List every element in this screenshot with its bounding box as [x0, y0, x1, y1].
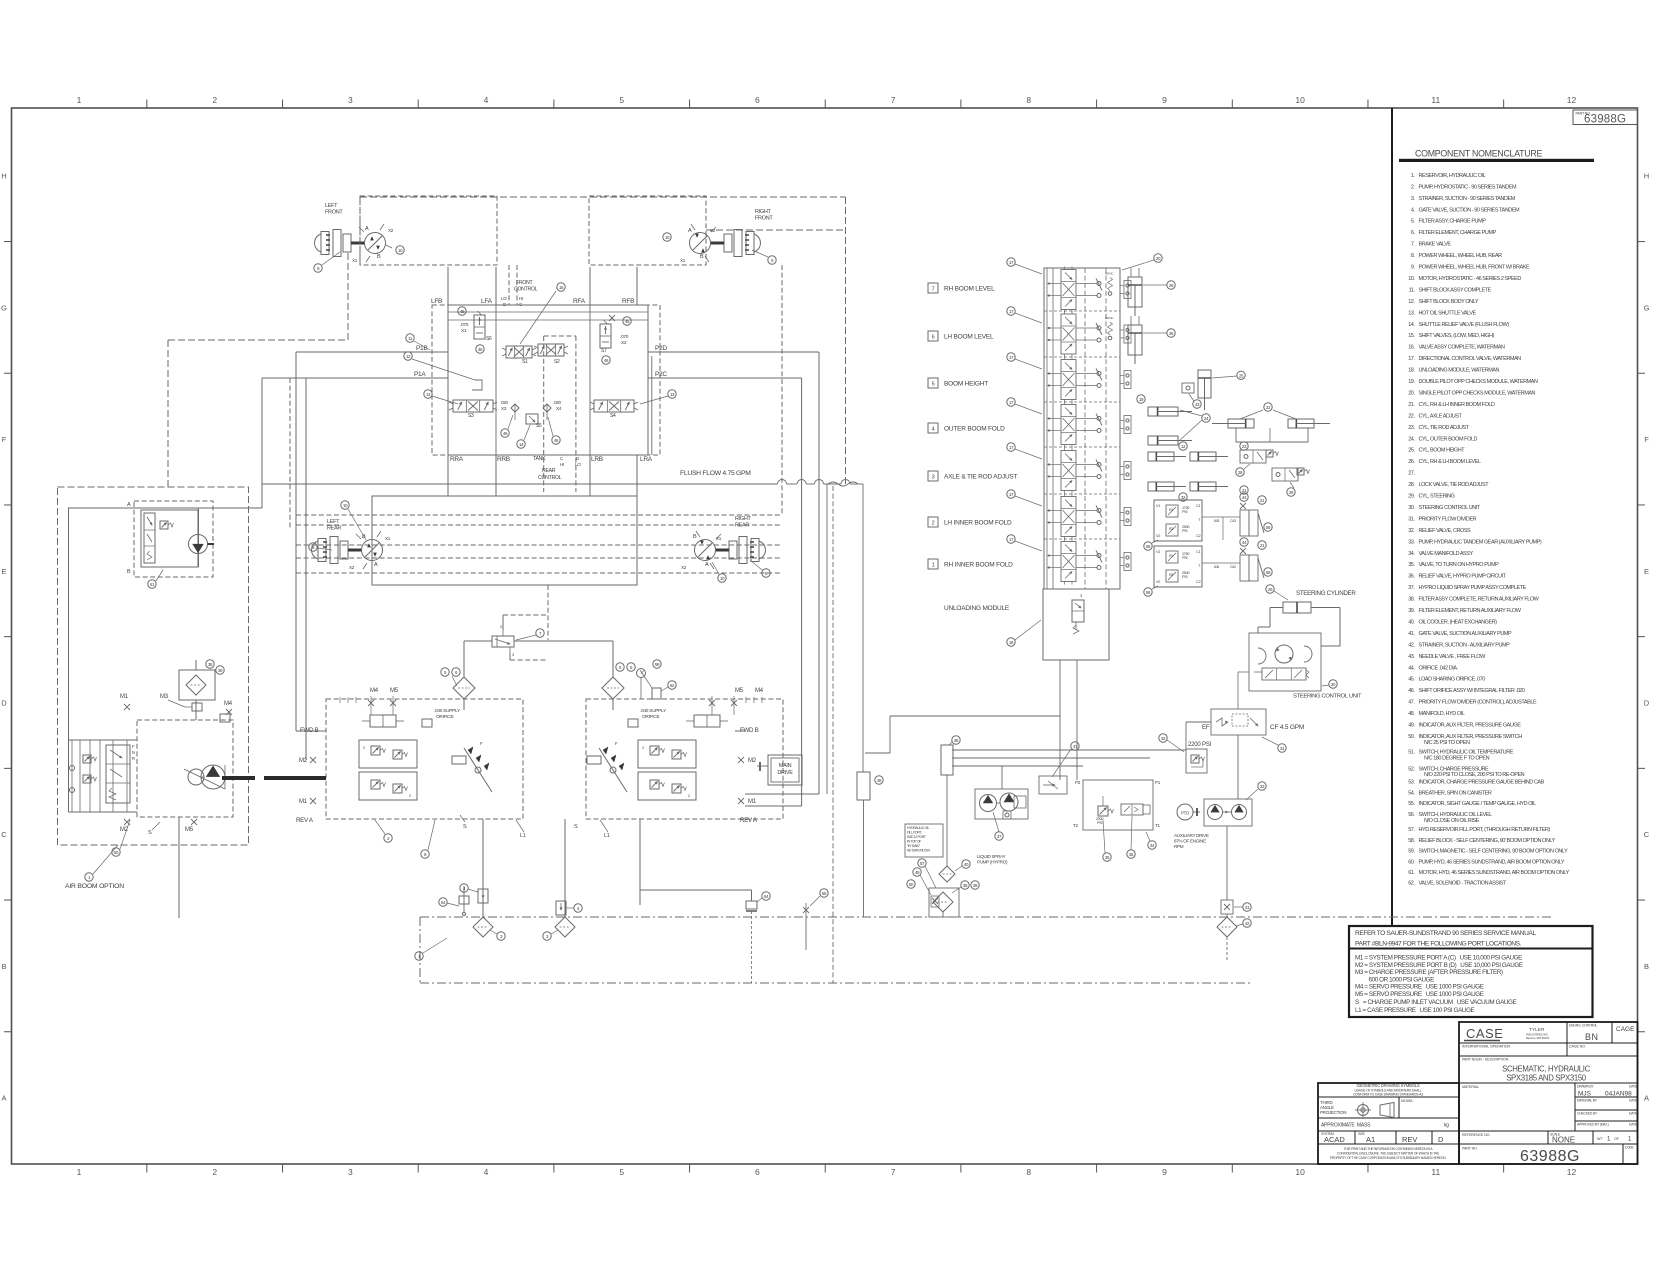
svg-text:N/C 180 DEGREE F TO OPEN: N/C 180 DEGREE F TO OPEN — [1424, 756, 1490, 762]
svg-text:APPROVED BY (MAJ.): APPROVED BY (MAJ.) — [1577, 1123, 1609, 1127]
svg-text:N/C 25 PSI TO OPEN: N/C 25 PSI TO OPEN — [1424, 740, 1470, 746]
svg-text:L1: L1 — [604, 833, 610, 839]
svg-text:2: 2 — [409, 794, 411, 798]
svg-text:1: 1 — [77, 1167, 82, 1177]
label CF 4.5 GPM — [1270, 724, 1304, 731]
wire LRA feed — [651, 356, 653, 455]
box steering control unit — [1249, 633, 1321, 691]
svg-text:PSI: PSI — [1182, 575, 1187, 579]
svg-text:X2: X2 — [621, 340, 627, 346]
valve brake (7) — [492, 624, 515, 657]
svg-text:WT: WT — [1597, 1137, 1603, 1141]
svg-text:HYD RESERVOIR FILL PORT, (THRO: HYD RESERVOIR FILL PORT, (THROUGH RETURN… — [1419, 827, 1551, 833]
callout 45 S6 — [458, 307, 466, 315]
svg-text:3: 3 — [348, 1167, 353, 1177]
svg-text:SHIFT BLOCK BODY ONLY: SHIFT BLOCK BODY ONLY — [1419, 299, 1479, 305]
svg-text:CAGE NO.: CAGE NO. — [1569, 1045, 1586, 1049]
svg-text:R2: R2 — [1169, 573, 1173, 577]
cylinder tie rod lower left — [1148, 482, 1186, 491]
svg-text:X1: X1 — [461, 328, 467, 334]
svg-text:48.: 48. — [1408, 711, 1415, 717]
callout 3 left strainer — [490, 930, 505, 940]
svg-text:POWER WHEEL, WHEEL HUB, REAR: POWER WHEEL, WHEEL HUB, REAR — [1419, 253, 1503, 259]
valve needle 41 — [1221, 900, 1251, 914]
svg-text:VALVE, SOLENOID - TRACTION ASS: VALVE, SOLENOID - TRACTION ASSIST — [1419, 880, 1507, 886]
svg-text:ORIFICE .042 DIA.: ORIFICE .042 DIA. — [1419, 665, 1459, 671]
svg-text:CYL, RH & LH INNER BOOM FOLD: CYL, RH & LH INNER BOOM FOLD — [1419, 402, 1496, 408]
orifice X3 — [500, 400, 519, 420]
svg-text:36.: 36. — [1408, 574, 1415, 580]
svg-text:LOCK VALVE, TIE ROD ADJUST: LOCK VALVE, TIE ROD ADJUST — [1419, 482, 1490, 488]
svg-text:LEFT: LEFT — [325, 203, 338, 209]
svg-text:21.: 21. — [1408, 402, 1415, 408]
relief air pump A — [83, 755, 97, 763]
callout 22 axle — [1240, 403, 1296, 419]
svg-text:11.: 11. — [1409, 287, 1416, 293]
svg-text:M4: M4 — [370, 688, 379, 694]
callout 32/21 tie rod lower — [1179, 486, 1248, 501]
cylinder boom height — [1198, 370, 1211, 410]
svg-text:40.: 40. — [1408, 619, 1415, 625]
callouts 49 50 return filter — [907, 868, 931, 895]
svg-text:19.: 19. — [1408, 379, 1415, 385]
strainer 42 — [1217, 917, 1251, 937]
svg-text:REV A: REV A — [296, 817, 314, 824]
cylinder axle adjust right — [1288, 419, 1330, 428]
pumps aux tandem — [1208, 805, 1247, 820]
svg-text:FRONT: FRONT — [755, 216, 773, 222]
oil cooler 48 — [941, 736, 960, 775]
callout 18 unloading — [1007, 620, 1041, 646]
wire rear loop box — [372, 496, 637, 585]
svg-text:RELIEF VALVE, CROSS: RELIEF VALVE, CROSS — [1419, 528, 1472, 534]
svg-text:CYL, TIE ROD ADJUST: CYL, TIE ROD ADJUST — [1419, 425, 1470, 431]
filter air boom — [179, 670, 215, 700]
svg-text:23.: 23. — [1408, 425, 1415, 431]
circle PTO — [1177, 804, 1193, 820]
label function 3 AXLE & TIE ROD ADJUST — [928, 471, 1018, 481]
svg-text:FRONT: FRONT — [325, 210, 343, 216]
valve self centering upper — [1230, 503, 1264, 536]
svg-text:V1: V1 — [1156, 550, 1160, 554]
svg-text:F: F — [1644, 435, 1649, 444]
callout 9 left front — [314, 252, 340, 272]
box priority flow divider EF-CF — [1211, 709, 1266, 735]
suction strainer aux — [746, 901, 757, 983]
callout 9 right front — [752, 250, 776, 264]
relief air motor — [160, 521, 174, 529]
svg-text:10: 10 — [1295, 1167, 1305, 1177]
svg-text:7: 7 — [891, 1167, 896, 1177]
label FRONT CONTROL — [514, 280, 538, 293]
wire flush loop top line — [262, 480, 863, 485]
svg-text:X1: X1 — [385, 536, 391, 541]
callout 13 S3 — [424, 390, 458, 404]
svg-text:41.: 41. — [1408, 631, 1415, 637]
svg-text:3: 3 — [932, 475, 935, 481]
cylinder steering — [1270, 602, 1340, 613]
svg-text:M3: M3 — [160, 694, 169, 700]
svg-text:M1: M1 — [748, 799, 757, 805]
svg-text:MANIFOLD, HYD OIL: MANIFOLD, HYD OIL — [1419, 711, 1465, 717]
svg-text:PUMP, HYDROSTATIC - 90 SERIES: PUMP, HYDROSTATIC - 90 SERIES TANDEM — [1419, 184, 1517, 190]
svg-text:M2: M2 — [748, 758, 757, 764]
label LO D / HI C — [501, 296, 523, 307]
svg-text:S = CHARGE PUMP INLET VACUUM: S = CHARGE PUMP INLET VACUUM USE VACUUM … — [1355, 999, 1517, 1006]
svg-text:REFER TO SAUER-SUNDSTRAND 90 S: REFER TO SAUER-SUNDSTRAND 90 SERIES SERV… — [1355, 930, 1537, 937]
svg-text:T2: T2 — [1073, 823, 1079, 828]
svg-text:H: H — [1644, 172, 1649, 181]
svg-text:55.: 55. — [1408, 801, 1415, 807]
svg-text:28.: 28. — [1408, 482, 1415, 488]
svg-text:FILTER ELEMENT, CHARGE PUMP: FILTER ELEMENT, CHARGE PUMP — [1419, 230, 1497, 236]
svg-text:NONE: NONE — [1552, 1136, 1575, 1145]
orifice X4 — [543, 400, 562, 420]
svg-text:2: 2 — [688, 794, 690, 798]
svg-text:ORIFICE: ORIFICE — [642, 714, 659, 720]
callout 32 relief — [1159, 734, 1184, 752]
nomenclature panel divider — [1391, 108, 1393, 926]
part number box top right — [1573, 110, 1638, 126]
svg-text:C: C — [1, 830, 7, 839]
svg-text:M5: M5 — [735, 688, 744, 694]
svg-text:04JAN98: 04JAN98 — [1605, 1091, 1632, 1098]
svg-text:FLUSH FLOW 4.75 GPM: FLUSH FLOW 4.75 GPM — [680, 470, 751, 477]
svg-text:CASE: CASE — [1466, 1026, 1503, 1041]
labels P1B P2D P1A P2C — [414, 345, 667, 378]
svg-text:REAR: REAR — [542, 468, 556, 474]
svg-text:SIZE: SIZE — [1358, 1132, 1366, 1136]
callout 10 right rear — [712, 562, 726, 582]
svg-text:SHUTTLE RELIEF VALVE (FLUSH FL: SHUTTLE RELIEF VALVE (FLUSH FLOW) — [1419, 322, 1510, 328]
ports M1 M2 M3 M4 M5 S air pump — [120, 694, 233, 836]
svg-text:54.: 54. — [1408, 790, 1415, 796]
svg-text:10.: 10. — [1408, 276, 1415, 282]
svg-text:INTERNATIONAL OPERATION: INTERNATIONAL OPERATION — [1462, 1045, 1510, 1049]
internals EF-CF — [1216, 714, 1258, 726]
svg-text:26.: 26. — [1408, 459, 1415, 465]
label A B air motor — [127, 502, 131, 575]
svg-text:SHIFT VALVES, (LOW, MED, HIGH): SHIFT VALVES, (LOW, MED, HIGH) — [1419, 333, 1495, 339]
box air boom inner solid — [69, 508, 199, 740]
nomenclature list items 50-62 — [1408, 734, 1569, 887]
svg-text:DATE: DATE — [1629, 1112, 1638, 1116]
svg-text:R1: R1 — [1169, 554, 1173, 558]
svg-text:PART NOUN - DESCRIPTION: PART NOUN - DESCRIPTION — [1462, 1058, 1509, 1062]
svg-text:SWITCH, MAGNETIC - SELF CENTER: SWITCH, MAGNETIC - SELF CENTERING, 90' B… — [1419, 849, 1569, 855]
wire dashed return x833 — [832, 486, 834, 983]
svg-text:62.: 62. — [1408, 880, 1415, 886]
svg-text:POWER WHEEL, WHEEL HUB, FRONT: POWER WHEEL, WHEEL HUB, FRONT W/ BRAKE — [1419, 265, 1530, 271]
valve S3 — [449, 400, 497, 419]
valve boom section 3 — [1047, 448, 1102, 494]
svg-text:643: 643 — [1214, 519, 1219, 523]
svg-text:PRIORITY FLOW DIVIDER (CONTROL: PRIORITY FLOW DIVIDER (CONTROL), ADJUSTA… — [1419, 700, 1537, 706]
callouts manifold — [1103, 816, 1156, 861]
wire EF riser — [1237, 735, 1239, 799]
svg-text:MOTOR, HYDROSTATIC - 46 SERIES: MOTOR, HYDROSTATIC - 46 SERIES 2 SPEED — [1419, 276, 1522, 282]
gate valve aux — [803, 903, 809, 950]
svg-text:51.: 51. — [1408, 750, 1415, 756]
svg-text:HYPRO LIQUID SPRAY PUMP ASSY C: HYPRO LIQUID SPRAY PUMP ASSY COMPLETE — [1419, 585, 1527, 591]
svg-text:NEEDLE VALVE , FREE FLOW: NEEDLE VALVE , FREE FLOW — [1419, 654, 1487, 660]
callout 47 divider — [1052, 742, 1079, 777]
svg-text:X1: X1 — [352, 258, 358, 263]
svg-text:SINGLE PILOT OPP CHECKS MODULE: SINGLE PILOT OPP CHECKS MODULE, WATERMAN — [1419, 390, 1536, 396]
svg-text:44.: 44. — [1408, 665, 1415, 671]
svg-text:IN TOP OF: IN TOP OF — [907, 840, 921, 844]
callouts upper centering — [1240, 493, 1272, 531]
svg-text:Benson, MN 56215: Benson, MN 56215 — [1526, 1036, 1550, 1040]
svg-text:M3 = CHARGE PRESSURE (AFTER PR: M3 = CHARGE PRESSURE (AFTER PRESSURE FIL… — [1355, 969, 1503, 976]
label function 7 RH BOOM LEVEL — [928, 283, 995, 293]
svg-text:P2: P2 — [1075, 780, 1081, 785]
wire P1 risers to pumps — [296, 352, 306, 760]
label STEERING CONTROL UNIT — [1293, 694, 1362, 700]
labels L1 S between pumps — [460, 815, 610, 839]
label STEERING CYLINDER — [1296, 590, 1356, 597]
note hydraulic fill port — [905, 824, 943, 857]
svg-text:R1: R1 — [1169, 508, 1173, 512]
cylinder outer boom fold upper — [1148, 407, 1192, 416]
valve S6 shift orifice — [460, 311, 492, 342]
svg-text:2: 2 — [212, 1167, 217, 1177]
svg-text:CYL, AXLE ADJUST: CYL, AXLE ADJUST — [1419, 413, 1463, 419]
svg-text:RETURN FILTER.: RETURN FILTER. — [907, 849, 931, 853]
cylinder tie rod right — [1190, 452, 1228, 461]
svg-text:H: H — [1, 172, 6, 181]
label UNLOADING MODULE — [944, 605, 1010, 612]
svg-text:GATE VALVE, SUCTION AUXILIARY: GATE VALVE, SUCTION AUXILIARY PUMP — [1419, 631, 1512, 637]
svg-text:C2: C2 — [1196, 534, 1200, 538]
svg-text:G: G — [1, 303, 7, 312]
svg-text:49.: 49. — [1408, 723, 1415, 729]
motor air boom fan — [189, 535, 215, 568]
svg-text:E: E — [1644, 567, 1649, 576]
svg-text:L1 = CASE PRESSURE USE 100 P: L1 = CASE PRESSURE USE 100 PSI GAUGE — [1355, 1007, 1475, 1014]
box air boom outer dashed — [58, 487, 249, 845]
svg-text:39.: 39. — [1408, 608, 1415, 614]
callout 16 top — [1122, 254, 1162, 270]
svg-text:RELIEF BLOCK - SELF CENTERING,: RELIEF BLOCK - SELF CENTERING, 90' BOOM … — [1419, 838, 1556, 844]
callout 11 — [406, 334, 430, 350]
svg-text:GEOMETRIC DRAWING SYMBOLS: GEOMETRIC DRAWING SYMBOLS — [1356, 1083, 1419, 1088]
svg-text:REAR: REAR — [735, 523, 749, 529]
svg-text:BREATHER, SPIN ON CANISTER: BREATHER, SPIN ON CANISTER — [1419, 790, 1492, 796]
svg-text:RESERVOIR, HYDRAULIC OIL: RESERVOIR, HYDRAULIC OIL — [1419, 173, 1486, 179]
svg-text:MATERIAL: MATERIAL — [1462, 1085, 1479, 1089]
svg-text:F: F — [2, 435, 7, 444]
wire manifold to tank — [864, 800, 944, 917]
svg-text:P1: P1 — [1155, 780, 1161, 785]
svg-text:C1: C1 — [1196, 504, 1200, 508]
svg-text:kg: kg — [1444, 1123, 1449, 1129]
svg-text:ORIFICE: ORIFICE — [436, 714, 453, 720]
svg-text:LIQUID SPRAY: LIQUID SPRAY — [977, 854, 1005, 859]
svg-text:VALVE MANIFOLD ASSY: VALVE MANIFOLD ASSY — [1419, 551, 1474, 557]
check air pump — [70, 740, 75, 812]
svg-text:5: 5 — [619, 95, 624, 105]
svg-text:DRAWN BY: DRAWN BY — [1577, 1085, 1594, 1089]
breather 54 left — [439, 886, 469, 916]
svg-text:30.: 30. — [1408, 505, 1415, 511]
svg-text:LO: LO — [501, 296, 507, 301]
valve air pump spool — [106, 744, 135, 803]
svg-text:60.: 60. — [1408, 860, 1415, 866]
svg-text:13.: 13. — [1408, 310, 1415, 316]
callout 29 steering cyl — [1266, 585, 1288, 600]
svg-text:9: 9 — [1162, 1167, 1167, 1177]
module pilot opp checks — [1120, 281, 1131, 571]
svg-text:A: A — [1644, 1094, 1649, 1103]
svg-text:DIRECTIONAL CONTROL VALVE, WAT: DIRECTIONAL CONTROL VALVE, WATERMAN — [1419, 356, 1522, 362]
wire dashed tank extension right — [1100, 982, 1252, 984]
svg-text:5: 5 — [619, 1167, 624, 1177]
svg-text:.020: .020 — [553, 400, 561, 405]
label RIGHT FRONT — [755, 209, 773, 222]
svg-text:2: 2 — [932, 521, 935, 527]
valve S4 — [590, 400, 638, 419]
check valve 4 left — [460, 884, 488, 903]
svg-text:7: 7 — [891, 95, 896, 105]
svg-text:CHECKED BY: CHECKED BY — [1577, 1112, 1598, 1116]
cylinder tie rod left — [1148, 452, 1186, 461]
svg-text:9: 9 — [1162, 95, 1167, 105]
svg-text:63988G: 63988G — [1520, 1148, 1580, 1165]
wire crossfeed dashed verticals — [509, 265, 517, 305]
pumps liquid spray — [980, 793, 1027, 819]
svg-text:20.: 20. — [1408, 390, 1415, 396]
callout 19 module — [1137, 395, 1145, 403]
svg-text:CF 4.5 GPM: CF 4.5 GPM — [1270, 724, 1304, 731]
svg-text:B: B — [1, 962, 6, 971]
svg-text:53.: 53. — [1408, 779, 1415, 785]
svg-text:PTO: PTO — [1181, 811, 1190, 816]
svg-text:15.: 15. — [1408, 333, 1415, 339]
svg-text:8: 8 — [1026, 1167, 1031, 1177]
svg-text:S3: S3 — [468, 413, 474, 419]
svg-text:REV: REV — [1402, 1135, 1417, 1144]
wire resume squiggles — [828, 482, 858, 486]
svg-text:12: 12 — [1567, 1167, 1577, 1177]
node P1A line — [262, 377, 802, 379]
svg-text:87% OF ENGINE: 87% OF ENGINE — [1174, 839, 1206, 844]
wire P2D riser — [745, 352, 819, 794]
relief 2000 PSI manifold — [1096, 796, 1114, 825]
valve boom section 4 — [1047, 402, 1102, 448]
labels RRA RRB TANK LRB LRA — [450, 456, 653, 467]
svg-text:A1: A1 — [1366, 1135, 1375, 1144]
labels FWD B / REV A / M1 M2 left — [296, 727, 319, 824]
svg-text:AXLE & TIE ROD ADJUST: AXLE & TIE ROD ADJUST — [944, 474, 1018, 481]
svg-text:43.: 43. — [1408, 654, 1415, 660]
callout 1 reservoir — [415, 938, 447, 960]
svg-text:.070: .070 — [620, 334, 629, 340]
callout 58 LH — [1144, 540, 1158, 550]
svg-text:LH INNER BOOM FOLD: LH INNER BOOM FOLD — [944, 520, 1012, 527]
svg-text:UNLOADING MODULE, WATERMAN: UNLOADING MODULE, WATERMAN — [1419, 368, 1500, 374]
svg-text:1: 1 — [77, 95, 82, 105]
svg-text:PRIORITY FLOW DIVIDER: PRIORITY FLOW DIVIDER — [1419, 516, 1477, 522]
svg-text:AIR BOOM OPTION: AIR BOOM OPTION — [65, 883, 124, 890]
svg-text:R2: R2 — [1169, 527, 1173, 531]
labels P2 P1 T2 T1 — [1073, 780, 1161, 828]
svg-text:18.: 18. — [1408, 368, 1415, 374]
frame axle adjust — [1236, 428, 1308, 442]
callout 25 boom height — [1212, 371, 1245, 379]
svg-text:C43: C43 — [1230, 519, 1236, 523]
svg-text:DATE: DATE — [1629, 1123, 1638, 1127]
callout 8 left rear — [309, 543, 332, 551]
wire FWD B lines — [296, 730, 745, 732]
svg-text:HI: HI — [560, 462, 564, 467]
wire air boom bus — [69, 740, 138, 812]
svg-text:V2: V2 — [1156, 580, 1160, 584]
label EF — [1202, 725, 1210, 731]
relief M3 top — [185, 703, 230, 722]
svg-text:SCHEMATIC, HYDRAULIC: SCHEMATIC, HYDRAULIC — [1502, 1065, 1590, 1074]
svg-text:MODEL: MODEL — [1401, 1099, 1413, 1103]
svg-text:E: E — [1, 567, 6, 576]
wire header lines — [448, 312, 648, 320]
svg-text:L1: L1 — [520, 833, 526, 839]
svg-text:FILTER ASSY, CHARGE PUMP: FILTER ASSY, CHARGE PUMP — [1419, 219, 1487, 225]
svg-text:EF: EF — [1202, 725, 1210, 731]
valve lock tie rod upper — [1240, 450, 1279, 463]
svg-text:X1: X1 — [716, 536, 722, 541]
label FLUSH FLOW — [680, 470, 751, 477]
svg-text:M4: M4 — [755, 688, 764, 694]
box aux tandem pump — [1204, 799, 1252, 826]
svg-text:HI: HI — [519, 296, 523, 301]
labels LFB LFA RFA RFB — [431, 298, 634, 305]
label RIGHT REAR — [735, 516, 752, 529]
valve S1 — [502, 346, 536, 365]
svg-text:G: G — [1644, 303, 1650, 312]
svg-text:C2: C2 — [1196, 580, 1200, 584]
callout 8 below left pump — [421, 820, 435, 858]
svg-text:N/O CLOSE ON OIL RISE: N/O CLOSE ON OIL RISE — [1424, 818, 1480, 824]
svg-text:STEERING CYLINDER: STEERING CYLINDER — [1296, 590, 1356, 597]
label LEFT FRONT — [325, 203, 343, 216]
svg-text:12.: 12. — [1408, 299, 1415, 305]
pump block right hydrostatic — [586, 662, 783, 819]
motor M-LF left front wheel motor — [315, 224, 394, 263]
svg-text:INDICATOR, SIGHT GAUGE / TEMP: INDICATOR, SIGHT GAUGE / TEMP GAUGE, HYD… — [1419, 801, 1537, 807]
svg-text:11: 11 — [1431, 1167, 1440, 1177]
wire P2C riser — [745, 378, 802, 806]
callouts lower centering — [1240, 538, 1272, 576]
valve air boom motor control — [144, 513, 155, 563]
svg-text:COMPONENT NOMENCLATURE: COMPONENT NOMENCLATURE — [1415, 149, 1542, 159]
callout 12 hook — [404, 352, 482, 390]
callout 29 lock lower — [1287, 482, 1295, 496]
svg-text:NO NC: NO NC — [1105, 316, 1114, 320]
svg-text:OUTER BOOM FOLD: OUTER BOOM FOLD — [944, 426, 1005, 433]
svg-text:S4: S4 — [610, 413, 616, 419]
svg-text:CYL, BOOM HEIGHT: CYL, BOOM HEIGHT — [1419, 448, 1466, 454]
svg-text:PROJECTION: PROJECTION — [1320, 1110, 1346, 1115]
svg-text:P2C: P2C — [655, 371, 667, 378]
callout 31 divider — [1262, 737, 1286, 752]
box return filter — [929, 888, 959, 917]
wire aux pump suction — [1226, 826, 1228, 900]
svg-text:ENGRG. CONTROL: ENGRG. CONTROL — [1569, 1024, 1597, 1028]
svg-text:59.: 59. — [1408, 849, 1415, 855]
callout 48 manifold — [875, 776, 883, 784]
svg-text:2: 2 — [212, 95, 217, 105]
svg-text:16.: 16. — [1408, 345, 1415, 351]
